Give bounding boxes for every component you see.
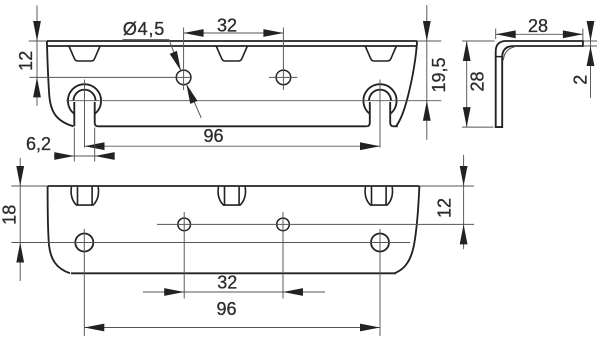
body top edge line 1 bbox=[47, 40, 417, 42]
tab 3 bbox=[365, 187, 392, 205]
svg-text:18: 18 bbox=[0, 205, 20, 225]
dim 28 left ext lines bbox=[462, 41, 495, 127]
dim 6,2 ext lines bbox=[74, 128, 94, 162]
dim 32 top arrows bbox=[184, 29, 204, 37]
dim 28 top ext lines bbox=[496, 29, 583, 41]
hole H1 bbox=[176, 70, 191, 85]
dim 32 bottom arrows bbox=[164, 288, 184, 296]
tab 1 bbox=[71, 187, 98, 205]
svg-text:28: 28 bbox=[468, 71, 488, 91]
plate left edge bbox=[48, 186, 70, 273]
cutout tab 3 bbox=[365, 46, 396, 61]
dim 96 top line bbox=[85, 145, 381, 147]
dim 12 right ext top bbox=[420, 185, 474, 187]
dim 96 top arrows bbox=[85, 142, 105, 150]
dim 19,5 ext top bbox=[418, 40, 442, 42]
mount ring left inner bbox=[74, 90, 96, 101]
dim 18 ext top bbox=[11, 185, 47, 187]
svg-text:28: 28 bbox=[528, 16, 548, 36]
dim 28 top line bbox=[496, 33, 583, 35]
mount ring right outer bbox=[363, 84, 396, 114]
mounts axis line bbox=[66, 100, 441, 102]
dim 96 bottom line bbox=[84, 327, 380, 329]
plate bottom edge bbox=[71, 272, 396, 274]
body bottom edge bbox=[98, 125, 367, 127]
svg-text:32: 32 bbox=[217, 273, 237, 293]
dim 12 right arrows bbox=[460, 166, 468, 186]
dim 28 top arrows bbox=[496, 30, 516, 38]
svg-text:6,2: 6,2 bbox=[26, 134, 51, 154]
big hole left bbox=[75, 234, 93, 252]
dim 32 bottom line bbox=[143, 291, 325, 293]
dim 32 top ext lines bbox=[184, 28, 284, 91]
dim 6,2 arrows bbox=[54, 152, 74, 160]
mount right centerline bbox=[379, 80, 381, 148]
dim 18 line bbox=[19, 158, 21, 281]
mount left centerline bbox=[84, 80, 86, 148]
dim 2 ext lines bbox=[584, 41, 598, 46]
mount ring left outer bbox=[68, 84, 101, 114]
cutout tab 1 bbox=[69, 46, 100, 61]
dim O4,5 leader bbox=[169, 40, 201, 118]
dim 2 arrows bbox=[587, 21, 595, 41]
svg-text:19,5: 19,5 bbox=[429, 57, 449, 92]
dim 96 bottom arrows bbox=[84, 324, 104, 332]
dim 19,5 arrows bbox=[423, 21, 431, 41]
L profile outline bbox=[496, 41, 583, 127]
tab 2 bbox=[218, 187, 245, 205]
big hole right bbox=[371, 234, 389, 252]
dim 32 top line bbox=[184, 32, 284, 34]
dim 12 line bbox=[36, 5, 38, 105]
svg-text:Ø4,5: Ø4,5 bbox=[123, 19, 165, 39]
small holes axis bbox=[157, 223, 474, 225]
dim 6,2 line bbox=[54, 155, 115, 157]
small hole right bbox=[277, 218, 290, 231]
big holes axis bbox=[11, 242, 410, 244]
slot right walls bbox=[367, 102, 394, 126]
cutout tab 2 bbox=[216, 46, 247, 61]
svg-text:12: 12 bbox=[16, 51, 36, 71]
svg-text:32: 32 bbox=[217, 16, 237, 36]
svg-text:2: 2 bbox=[571, 75, 591, 85]
body left edge bbox=[47, 41, 74, 126]
svg-text:12: 12 bbox=[435, 198, 455, 218]
dim 18 arrows bbox=[16, 166, 24, 186]
svg-text:96: 96 bbox=[203, 126, 223, 146]
dim 12 ext top bbox=[29, 40, 47, 42]
dim O4,5 underline bbox=[123, 39, 170, 41]
dim 28 left line bbox=[466, 41, 468, 127]
dim 12 arrows bbox=[33, 21, 41, 41]
small holes centerlines / ext bbox=[184, 212, 283, 299]
body right edge bbox=[396, 41, 417, 126]
body top edge line 2 bbox=[47, 45, 416, 47]
big holes centerlines / ext bbox=[84, 229, 380, 336]
svg-text:96: 96 bbox=[216, 299, 236, 319]
slot left walls bbox=[74, 102, 98, 126]
holes axis line bbox=[30, 76, 191, 78]
L profile bend lines bbox=[496, 56, 503, 58]
small hole left bbox=[178, 218, 191, 231]
mount ring right inner bbox=[369, 90, 391, 101]
dim 19,5 line bbox=[426, 5, 428, 140]
hole H2 bbox=[276, 70, 291, 85]
dim 2 line bbox=[590, 22, 592, 98]
hole H2 crosshair bbox=[269, 76, 298, 78]
dim 12 right line bbox=[463, 155, 465, 249]
plate right edge bbox=[395, 186, 420, 273]
dim 28 left arrows bbox=[463, 41, 471, 61]
plate top edge bbox=[48, 185, 420, 187]
